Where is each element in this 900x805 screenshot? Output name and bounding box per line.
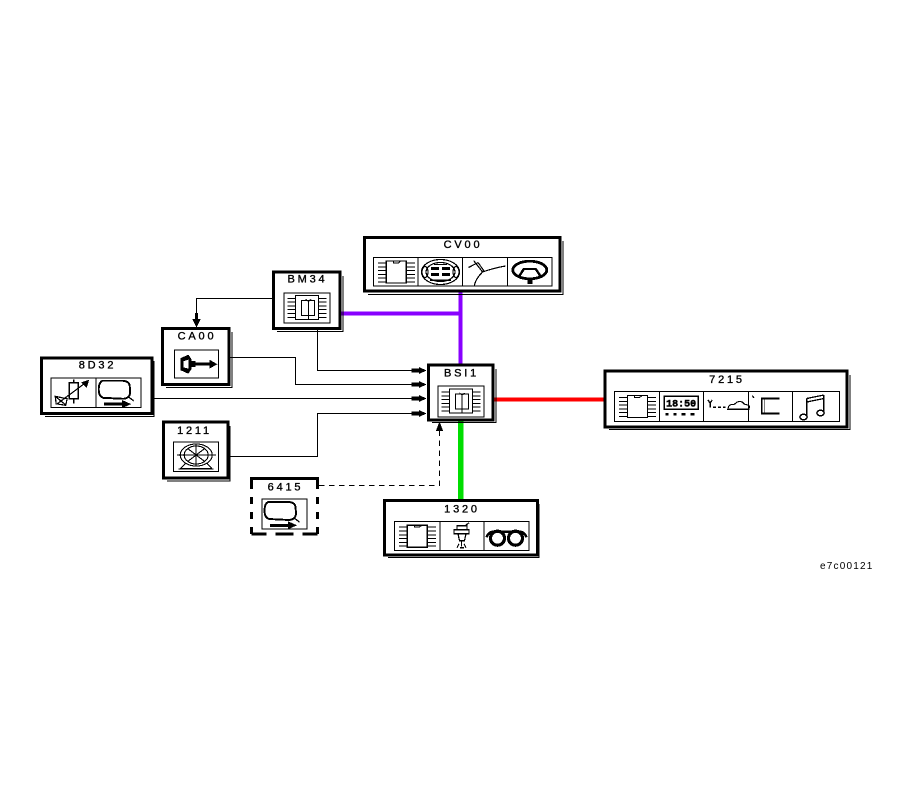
component BM34	[274, 272, 344, 332]
component CV00	[365, 238, 564, 295]
label e7c00121	[820, 561, 874, 572]
component 6415 (dashed)	[250, 477, 318, 534]
component 8D32	[42, 358, 155, 417]
svg-text:1320: 1320	[444, 504, 480, 516]
svg-text:e7c00121: e7c00121	[820, 561, 874, 572]
component 1211	[164, 422, 231, 481]
wire: green connection BSI1 to 1320	[458, 421, 464, 500]
svg-text:CV00: CV00	[444, 239, 483, 251]
wire: CA00 to BSI1 arrow 2	[231, 358, 427, 389]
wire: red connection BSI1 to 7215	[495, 398, 605, 402]
wire: BM34 bottom to BSI1 arrow 1	[318, 330, 427, 374]
wire: dashed 6415 to BSI1 with arrow	[319, 422, 443, 486]
svg-text:BM34: BM34	[288, 274, 328, 286]
svg-text:BSI1: BSI1	[444, 368, 479, 380]
wire: BM34 to CA00 with arrow	[192, 299, 272, 328]
wire: purple connection BM34/CV00 to BSI1	[341, 293, 463, 365]
svg-text:1211: 1211	[177, 425, 212, 437]
component CA00	[163, 329, 233, 388]
component 1320	[385, 501, 540, 558]
wire: 1211 to BSI1 arrow 4	[230, 410, 427, 457]
wire: 8D32 to BSI1 arrow 3	[154, 395, 427, 402]
svg-text:7215: 7215	[709, 374, 745, 386]
component 7215	[605, 371, 850, 430]
svg-text:6415: 6415	[268, 482, 304, 494]
svg-text:8D32: 8D32	[79, 360, 117, 372]
svg-text:CA00: CA00	[178, 331, 217, 343]
component BSI1	[429, 365, 497, 423]
